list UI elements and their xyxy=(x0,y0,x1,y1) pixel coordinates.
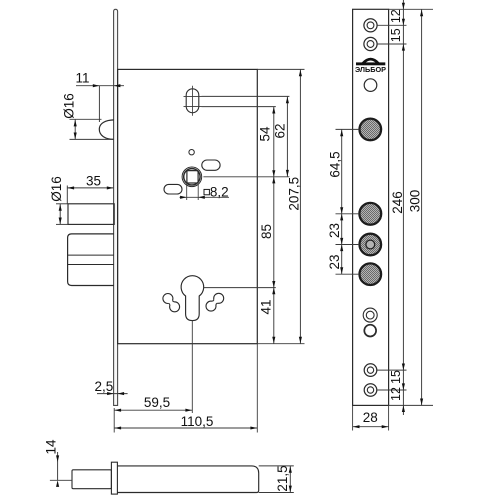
leader hatched hole C xyxy=(336,244,360,246)
deadbolt internal line 2 xyxy=(68,264,114,266)
small hole above spindle xyxy=(189,150,194,155)
dim 28 dimension line xyxy=(353,426,389,428)
dim dia16 latch dimension line xyxy=(74,120,76,140)
dim 35 extension line xyxy=(66,186,68,204)
dim 8.2 extension line right xyxy=(197,184,199,200)
screw hole top 2 xyxy=(364,37,377,50)
leader hatched hole D xyxy=(336,273,360,275)
keyhole centerline extension down xyxy=(191,321,193,413)
oval hole left below spindle xyxy=(164,184,182,194)
hatched bolt hole C with center hole xyxy=(360,234,382,256)
svg-text:28: 28 xyxy=(363,410,378,425)
svg-text:54: 54 xyxy=(258,126,273,142)
dim 8.2 square symbol xyxy=(204,189,209,194)
dim 14 extension line (pin axis) xyxy=(50,479,72,481)
svg-text:41: 41 xyxy=(258,299,273,314)
dim chain line 54-85-41 xyxy=(273,107,275,344)
extension line right (body edge) for 110.5 xyxy=(256,344,258,433)
follower cross arm lower xyxy=(184,106,202,108)
svg-text:Ø16: Ø16 xyxy=(62,93,77,119)
bolt body top extension line xyxy=(259,465,294,467)
svg-text:11: 11 xyxy=(75,71,89,86)
screw hole top 1 xyxy=(364,19,377,32)
svg-text:35: 35 xyxy=(86,174,101,189)
dim 2.5 dimension line xyxy=(97,393,128,395)
oval hole right of spindle xyxy=(202,160,220,170)
svg-text:23: 23 xyxy=(327,254,342,269)
screw hole bottom 1 xyxy=(364,364,377,377)
dim 207.5 dimension line xyxy=(299,69,301,343)
dim 21.5 dimension line xyxy=(289,466,291,493)
leader hatched hole B xyxy=(336,213,360,215)
spindle hub inner circle xyxy=(184,169,200,185)
ELBOR logo emblem xyxy=(363,59,379,64)
dim line 12/15/246/15/12 xyxy=(402,0,404,415)
leader screw top 1 xyxy=(377,24,406,26)
plate top edge extension line xyxy=(389,8,433,10)
follower slot vertical centerline xyxy=(192,86,194,116)
dim 14 dimension line xyxy=(57,452,59,480)
svg-text:2,5: 2,5 xyxy=(95,379,114,394)
aux bolt top edge extension xyxy=(56,203,68,205)
leader screw top 2 xyxy=(377,43,406,45)
spindle leader line xyxy=(203,176,289,178)
dim 110.5 dimension line xyxy=(114,427,257,429)
svg-text:64,5: 64,5 xyxy=(327,151,342,177)
svg-text:14: 14 xyxy=(44,439,59,455)
svg-text:Ø16: Ø16 xyxy=(49,176,64,202)
faceplate front view outline xyxy=(353,9,389,405)
svg-text:300: 300 xyxy=(408,190,423,213)
auxiliary bolt dia16 (rectangle) xyxy=(68,204,114,225)
svg-text:62: 62 xyxy=(273,123,288,138)
latch dia16 extension line top xyxy=(70,118,102,120)
latch dia16 extension line bottom xyxy=(70,138,114,140)
plate bottom edge extension line xyxy=(389,404,433,406)
svg-text:110,5: 110,5 xyxy=(181,414,214,429)
leader screw bottom 2 xyxy=(377,389,407,391)
svg-text:85: 85 xyxy=(259,224,274,239)
svg-text:21,5: 21,5 xyxy=(275,465,290,491)
svg-text:59,5: 59,5 xyxy=(144,395,170,410)
dim 11 extension line (latch tip) xyxy=(98,86,100,122)
right paracentric hole (dumbbell) xyxy=(214,293,224,303)
bolt detail: flange xyxy=(111,462,117,494)
deadbolt block xyxy=(68,234,114,286)
euro cylinder keyhole xyxy=(181,276,204,321)
svg-text:12: 12 xyxy=(389,387,403,401)
lock body outline xyxy=(118,69,258,343)
latch bolt (D-shape) xyxy=(99,120,114,139)
svg-text:ЭЛЬБОР: ЭЛЬБОР xyxy=(355,65,386,74)
svg-text:15: 15 xyxy=(389,28,403,42)
deadbolt internal line 1 xyxy=(68,254,114,256)
dim 35 dimension line xyxy=(67,187,113,189)
hatched bolt hole D xyxy=(360,263,382,285)
follower cross arm upper xyxy=(184,95,202,97)
leader hatched hole A xyxy=(336,128,360,130)
svg-text:15: 15 xyxy=(389,370,403,384)
dim 8.2 dimension line xyxy=(180,196,230,198)
bolt detail: body xyxy=(117,466,258,493)
hatched bolt hole A xyxy=(360,119,382,141)
dim 28 extension lines xyxy=(352,405,354,430)
dim 11 dimension line xyxy=(76,85,124,87)
bolt detail: tail pin xyxy=(72,470,111,489)
bolt body bottom extension line xyxy=(259,492,294,494)
dim 62 dimension line xyxy=(286,96,288,176)
screw hole bottom 2 xyxy=(364,384,377,397)
leader line 54 (lower cross to dim) xyxy=(202,106,276,108)
svg-text:23: 23 xyxy=(327,223,342,238)
hatched bolt hole B xyxy=(359,203,381,225)
left paracentric hole (dumbbell) xyxy=(163,294,173,304)
plain hole below logo xyxy=(364,79,377,92)
dim 8.2 extension line left xyxy=(186,184,188,200)
leader screw bottom 1 xyxy=(377,369,407,371)
svg-text:246: 246 xyxy=(390,191,405,214)
thick circle hole xyxy=(364,325,376,337)
svg-text:207,5: 207,5 xyxy=(287,177,302,211)
dim line 64.5/23/23 xyxy=(341,129,343,274)
handle follower slot (stadium with crosses) xyxy=(186,89,199,113)
svg-text:12: 12 xyxy=(389,9,403,23)
aux bolt bottom edge extension xyxy=(56,223,68,225)
double circle hole (latch follower) xyxy=(363,308,377,322)
dim 300 dimension line xyxy=(421,9,423,405)
faceplate strip (side view) xyxy=(114,9,118,405)
spindle square 8.2 xyxy=(187,171,198,183)
dim dia16 aux dimension line xyxy=(59,204,61,224)
leader line 62 (upper cross to dim) xyxy=(202,95,290,97)
body bottom edge extension line xyxy=(257,343,304,345)
body top edge extension line xyxy=(257,68,304,70)
keyhole leader line xyxy=(204,287,276,289)
extension line left for 59.5/110.5 xyxy=(113,408,115,433)
dim 59.5 dimension line xyxy=(114,409,192,411)
spindle hub outer circle xyxy=(182,167,202,187)
